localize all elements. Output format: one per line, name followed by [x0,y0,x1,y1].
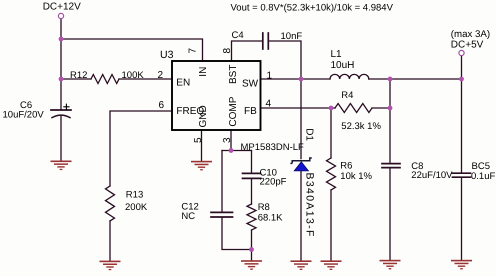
wire output down to BC5 [461,79,463,173]
svg-text:200K: 200K [125,202,148,213]
wire R13 to ground [109,221,111,260]
capacitor C4 plates [262,33,264,49]
resistor R6 [327,158,336,190]
wire D1 anode to ground [300,171,302,261]
svg-text:BST: BST [228,65,239,84]
svg-text:R12: R12 [70,70,87,81]
wire L1 to output node [369,78,462,80]
wire C12 bottom to joint [222,217,252,249]
wire C6 to ground [60,116,62,161]
svg-text:4: 4 [266,99,272,110]
svg-text:2: 2 [158,70,164,81]
svg-text:52.3k 1%: 52.3k 1% [341,121,381,132]
svg-text:10nF: 10nF [281,31,303,42]
wire COMP pin down [230,130,232,151]
ground C12/R8 [241,260,262,270]
svg-text:5: 5 [193,137,204,143]
wire SW pin to L1 [261,78,331,80]
wire top to IN [61,39,203,61]
ground D1 [291,260,312,270]
svg-text:SW: SW [242,78,259,89]
wire COMP node horizontal [222,150,252,152]
svg-text:B340A13-F: B340A13-F [304,173,316,238]
ground IC pin5 [191,161,212,171]
node dot output port [459,77,464,82]
svg-text:22uF/10V: 22uF/10V [411,170,453,181]
node dot COMP [229,148,234,153]
resistor R8 [247,204,256,230]
wire R6 branch from FB node down [330,108,332,158]
svg-text:3: 3 [222,137,233,143]
svg-text:MP1583DN-LF: MP1583DN-LF [241,142,305,153]
wire C10 branch down [251,151,253,174]
wire BC5 to ground [461,178,463,260]
ground R13 [100,261,121,271]
svg-text:6: 6 [159,100,165,111]
svg-text:0.1uF: 0.1uF [471,171,495,182]
wire C12 branch down [221,151,223,213]
svg-text:10uF/20V: 10uF/20V [3,110,45,121]
node dot FB / R4 / R6 [329,106,334,111]
wire C8 to ground [389,168,391,260]
svg-text:10uH: 10uH [331,60,355,71]
port DC+12V circle [58,13,63,18]
svg-text:L1: L1 [331,49,343,60]
ground R6 [321,260,342,270]
svg-text:U3: U3 [160,49,174,61]
diode D1 schottky cathode bar [290,158,311,163]
capacitor C12 plates [211,212,233,217]
diode D1 triangle [294,162,308,171]
ground C8 [380,260,401,270]
resistor R4 [335,104,372,113]
resistor R12 [91,75,119,84]
svg-text:68.1K: 68.1K [258,212,283,223]
svg-text:(max 3A): (max 3A) [451,29,490,40]
wire GND pin 5 to ground [201,130,203,161]
wire styles: stroke #442233 [51,19,471,261]
svg-text:8: 8 [222,48,233,54]
ground BC5 [451,260,472,270]
svg-text:DC+12V: DC+12V [43,2,81,13]
svg-text:GND: GND [198,105,209,127]
svg-text:EN: EN [176,78,190,89]
svg-text:Vout = 0.8V*(52.3k+10k)/10k =: Vout = 0.8V*(52.3k+10k)/10k = 4.984V [231,3,394,14]
svg-text:IN: IN [198,67,209,77]
svg-text:D1: D1 [304,128,315,141]
capacitor C6 plates [51,109,71,111]
node dot at +12V / IN branch [59,37,64,42]
wire R6 to ground [330,190,332,260]
wire DC+12V vertical main [60,19,62,110]
svg-text:DC+5V: DC+5V [451,40,484,51]
capacitor C8 plates [382,164,400,168]
node dot R4 right / C8 [388,106,393,111]
svg-text:100K: 100K [122,70,145,81]
wire FREQ pin to corner and down [110,111,172,186]
wire R8 to joint and ground [251,230,253,260]
capacitor BC5 plates [453,173,471,177]
IC pin name labels [176,65,258,128]
inductor L1 [330,74,369,79]
svg-text:7: 7 [188,48,199,54]
node dot C12/R8 joint [249,247,254,252]
svg-text:R13: R13 [126,190,143,201]
node dot SW / C4 / D1 [299,77,304,82]
svg-text:C4: C4 [232,30,244,41]
wire R12 right to EN pin [119,78,172,80]
svg-text:R4: R4 [341,90,353,101]
wire R4 right to output vertical [372,107,390,109]
ground C6 [51,161,72,171]
svg-text:10k 1%: 10k 1% [340,171,372,182]
resistor R13 [106,186,115,221]
IC U3 box [172,61,261,130]
node dot output / C8 [388,77,393,82]
svg-text:NC: NC [181,211,195,222]
wire C10 to R8 [251,179,253,204]
wire output node down to C8 [389,79,391,163]
wire D1 branch vertical [300,79,302,159]
C6 plus sign [64,104,69,109]
wire output to port DC+5V [461,56,463,80]
wire BST pin up and to C4 [232,41,263,61]
svg-text:1: 1 [267,71,273,82]
svg-text:COMP: COMP [228,96,239,126]
wire C4 to SW node [269,41,301,79]
port DC+5V circle [459,50,464,55]
svg-text:220pF: 220pF [260,177,287,188]
svg-text:R6: R6 [340,161,352,172]
node dot at R12 branch [59,77,64,82]
capacitor C10 plates [243,173,261,178]
wire R12 to EN: left part [61,78,91,80]
svg-text:FB: FB [244,106,257,117]
wire FB pin to R4 [261,107,336,109]
